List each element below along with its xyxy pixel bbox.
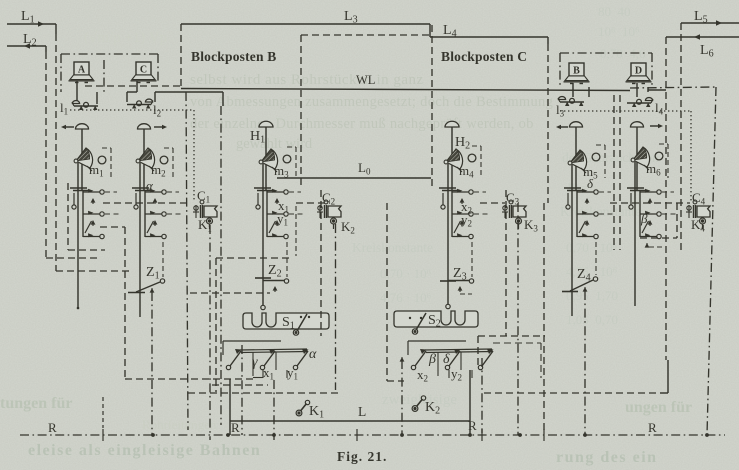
contact group under m5 — [564, 188, 613, 239]
svg-text:α: α — [309, 347, 317, 362]
coil m1 — [98, 156, 106, 164]
contact bar group under S2 — [411, 349, 493, 370]
wire dashdot v x210 — [209, 225, 211, 440]
wire WL — [181, 89, 630, 91]
svg-text:WL: WL — [356, 73, 375, 87]
wire L4 — [430, 36, 548, 38]
node L3 corner — [429, 24, 431, 37]
battery S2 — [394, 311, 478, 327]
relay m3 — [259, 149, 277, 172]
wire L1 with arrow — [7, 23, 56, 25]
wire dashed v x68 — [67, 183, 69, 250]
wire dotted left — [70, 109, 194, 111]
wire dotted left drop — [193, 110, 195, 200]
wire coil bracket — [164, 147, 173, 149]
counter C1 with key K1 — [193, 200, 217, 229]
wire L — [230, 420, 470, 422]
wire dashdot v x274 — [273, 380, 275, 440]
svg-text:tungen für: tungen für — [0, 395, 72, 412]
node R junction — [518, 433, 522, 437]
wire R earth line — [20, 434, 725, 436]
wire dashdot v x482 — [481, 358, 483, 433]
node R junction — [151, 433, 155, 437]
wire C to WL corner — [154, 92, 156, 102]
wire coil bracket — [287, 146, 296, 148]
wire dashed v x544 — [543, 203, 545, 430]
wire m4 stem — [447, 164, 449, 304]
svg-text:rung des ein: rung des ein — [556, 449, 658, 466]
crank dome m2 — [138, 124, 151, 129]
svg-text:R: R — [231, 420, 240, 435]
wire dashdot v x518 — [517, 203, 519, 435]
wire Z4 dashed up — [595, 242, 597, 275]
wire m5 stem — [571, 165, 573, 316]
svg-text:Fig. 21.: Fig. 21. — [337, 449, 387, 464]
wire dashdot v x335 — [335, 224, 337, 390]
wire Z4 dashdot down — [584, 287, 586, 289]
svg-text:(√m/p +1) Vp: (√m/p +1) Vp — [84, 30, 167, 46]
node R junction — [705, 433, 709, 437]
junction box around B D — [560, 52, 652, 54]
bell H2 — [445, 121, 459, 127]
switch Z1 — [128, 292, 145, 294]
wire Z1 dashdot down — [151, 288, 153, 290]
relay m4 — [444, 149, 462, 172]
relay m1 — [74, 148, 92, 171]
wire group1 frame — [223, 340, 281, 342]
node R junction — [400, 433, 404, 437]
crank dome m1 — [76, 124, 89, 129]
relay m6 — [631, 147, 649, 170]
wire dashed v x620 — [619, 95, 621, 250]
svg-text:δ: δ — [443, 352, 450, 367]
svg-text:R: R — [48, 420, 57, 435]
wire A down — [76, 81, 78, 101]
svg-text:D: D — [635, 66, 642, 77]
wire dashed h y336 — [478, 335, 545, 337]
wire dashed v x387 — [386, 203, 388, 381]
wire R tick — [356, 429, 358, 441]
svg-text:eleise als eingleisige Bahnen: eleise als eingleisige Bahnen — [28, 442, 261, 459]
node Z2 foot — [261, 305, 265, 309]
wire dashed v x125 — [100, 226, 125, 228]
contact l4 — [627, 98, 653, 107]
svg-text:α: α — [146, 178, 154, 193]
relay m2 — [136, 148, 154, 171]
wire dashed bus y203 — [103, 202, 190, 204]
block instrument D — [626, 63, 652, 84]
battery S1 — [243, 313, 329, 329]
arrow left of m1 dome — [63, 126, 74, 128]
arrow right of m2 dome — [154, 126, 165, 128]
node Blockposten B boundary — [180, 24, 182, 89]
wire group1 channels — [252, 352, 254, 376]
svg-text:B: B — [573, 66, 580, 77]
wire dotted right — [560, 110, 691, 112]
wire B down — [572, 83, 574, 97]
svg-text:Rohrleitungen: Rohrleitungen — [142, 417, 217, 432]
svg-text:A: A — [78, 65, 86, 76]
contact group under m4 — [439, 188, 488, 239]
switch Z2 — [255, 277, 271, 279]
switch Z4 — [562, 291, 578, 293]
wire L2 dashed drop — [45, 52, 47, 258]
contact l1 — [72, 101, 98, 110]
svg-text:L: L — [358, 404, 366, 419]
svg-text:1,05 0,70: 1,05 0,70 — [566, 312, 618, 327]
wire dashed v x103 — [102, 397, 104, 428]
wire group2 frame — [408, 340, 466, 342]
wire dashdot v x402 — [401, 357, 403, 359]
svg-text:80 40: 80 40 — [598, 4, 631, 19]
crank dome m6 — [631, 122, 644, 127]
svg-text:0,70 · 10⁶: 0,70 · 10⁶ — [566, 240, 617, 255]
wire WL dashdot extension — [630, 87, 717, 88]
wire Z1 dashed up — [162, 242, 164, 277]
wire L5 with arrow — [681, 22, 739, 24]
contact group under m1 — [70, 188, 119, 239]
wire m1 stem — [77, 163, 79, 308]
switch Z3 — [440, 280, 456, 282]
wire dashdot right slant — [707, 87, 716, 435]
wire boundary B dashdot — [186, 92, 188, 430]
counter C4 with key K4 — [686, 200, 710, 229]
wire L to R left — [229, 421, 231, 435]
wire R tick — [543, 429, 545, 441]
coil m2 — [160, 156, 168, 164]
wire Z3 arrow — [459, 288, 461, 293]
switch arm S1 — [297, 314, 307, 331]
wire dashed v x296 — [295, 206, 297, 256]
switch arm S2 — [416, 313, 426, 330]
svg-text:C: C — [140, 65, 147, 76]
coil m4 — [468, 154, 476, 162]
wire D down — [636, 83, 638, 97]
svg-text:0,95 1,70: 0,95 1,70 — [566, 288, 618, 303]
coil m5 — [592, 153, 600, 161]
block instrument C — [131, 62, 157, 83]
wire coil bracket — [659, 143, 668, 145]
svg-text:δ: δ — [587, 176, 594, 191]
wire m2 stem — [139, 163, 141, 317]
node Z3 foot — [446, 304, 450, 308]
wire coil bracket — [102, 147, 111, 149]
wire coil bracket — [472, 145, 481, 147]
wire dashed h y392 — [188, 392, 340, 394]
node R junction — [272, 433, 276, 437]
wire coil bracket — [596, 144, 605, 146]
contact bar group under S1 — [226, 349, 308, 370]
junction box around A C — [61, 53, 158, 55]
blocking key K1 — [296, 400, 310, 416]
wire L2 dashed run — [46, 257, 100, 259]
wire dashed h y384 — [212, 384, 268, 386]
svg-text:R: R — [468, 418, 477, 433]
contact group under m6 — [627, 188, 676, 239]
svg-text:β: β — [640, 211, 648, 226]
wire dashed box S1 group — [215, 258, 217, 392]
svg-text:ungen für: ungen für — [625, 399, 692, 416]
wire L5 dashed drop — [680, 23, 682, 250]
crank dome m5 — [570, 122, 583, 127]
block instrument A — [69, 62, 95, 83]
svg-text:Kreiskonstante: Kreiskonstante — [352, 240, 433, 255]
wire dashdot v x242 — [241, 345, 243, 435]
wire WL corner drop — [220, 106, 222, 425]
wire m6 stem — [634, 162, 636, 306]
svg-text:selbst wird aus Rohrstücken in: selbst wird aus Rohrstücken in ganz — [190, 72, 424, 88]
svg-text:R: R — [648, 420, 657, 435]
wire L6 dashed drop — [665, 37, 667, 360]
arrow right of m6 dome — [650, 125, 661, 127]
svg-text:β: β — [428, 352, 436, 367]
block instrument B — [564, 63, 590, 84]
wire dotted right drop — [690, 111, 692, 201]
wire Z2 dashed up — [286, 242, 288, 277]
wire dashed v x614 — [613, 95, 615, 250]
wire Z3 dashed up — [471, 242, 473, 277]
wire dashed box m6 — [640, 237, 677, 239]
counter C3 with key K3 — [502, 200, 526, 229]
wire WL stub to corner — [85, 85, 181, 87]
node R junction — [468, 433, 472, 437]
wire L0 — [277, 177, 431, 179]
wire L1 dashed run — [56, 270, 132, 272]
wire dashed h y379 — [125, 378, 255, 380]
wire m3 stem — [262, 164, 264, 305]
wire dashed v x321 — [320, 190, 322, 336]
wire R tick — [481, 429, 483, 441]
wire L4 dashed continuation — [301, 34, 430, 36]
wire Z2 dashed in — [190, 292, 270, 294]
bell H1 — [259, 121, 273, 127]
node Blockposten C boundary — [431, 25, 433, 190]
contact l3 — [558, 97, 584, 106]
wire L to R right — [469, 421, 471, 435]
coil m3 — [283, 155, 291, 163]
wire dashed v x667 low — [660, 392, 668, 394]
wire L2 with arrow — [7, 45, 46, 47]
node R junction — [583, 433, 587, 437]
blocking key K2 — [412, 396, 426, 412]
contact l2 — [127, 99, 153, 108]
wire L6 with arrow — [666, 36, 739, 38]
coil m6 — [655, 152, 663, 160]
arrow left of m5 dome — [558, 126, 568, 128]
svg-text:zweigleisige: zweigleisige — [382, 392, 457, 408]
contact group under m2 — [132, 188, 181, 239]
svg-text:Blockposten B: Blockposten B — [191, 49, 277, 64]
svg-text:der einzelnen Durchmesser muß: der einzelnen Durchmesser muß nachgeprüf… — [190, 116, 534, 132]
wire C down — [136, 81, 138, 92]
svg-text:10⁶ 10⁶: 10⁶ 10⁶ — [598, 24, 640, 39]
wire R tick — [102, 429, 104, 441]
node R junction — [226, 433, 230, 437]
contact group under m3 — [254, 188, 303, 239]
wire arrow m6 — [646, 243, 648, 245]
wire L4 drop — [547, 37, 549, 44]
counter C2 with key K2 — [317, 200, 341, 229]
wire L1 dashed drop — [55, 34, 57, 271]
wire dashed v x301 — [300, 35, 302, 185]
wire dashed h y393 right — [484, 392, 660, 394]
svg-text:4,76 · 10⁶: 4,76 · 10⁶ — [566, 264, 617, 279]
wire dashed v x506 — [505, 190, 507, 336]
wire group2 right frame — [493, 342, 541, 344]
svg-text:von Abmessungen zusammengesetz: von Abmessungen zusammengesetzt; doch di… — [190, 94, 553, 110]
wire L3 — [181, 23, 430, 25]
relay m5 — [568, 150, 586, 173]
svg-text:Blockposten C: Blockposten C — [441, 49, 527, 64]
wire group2 channels — [437, 352, 439, 376]
